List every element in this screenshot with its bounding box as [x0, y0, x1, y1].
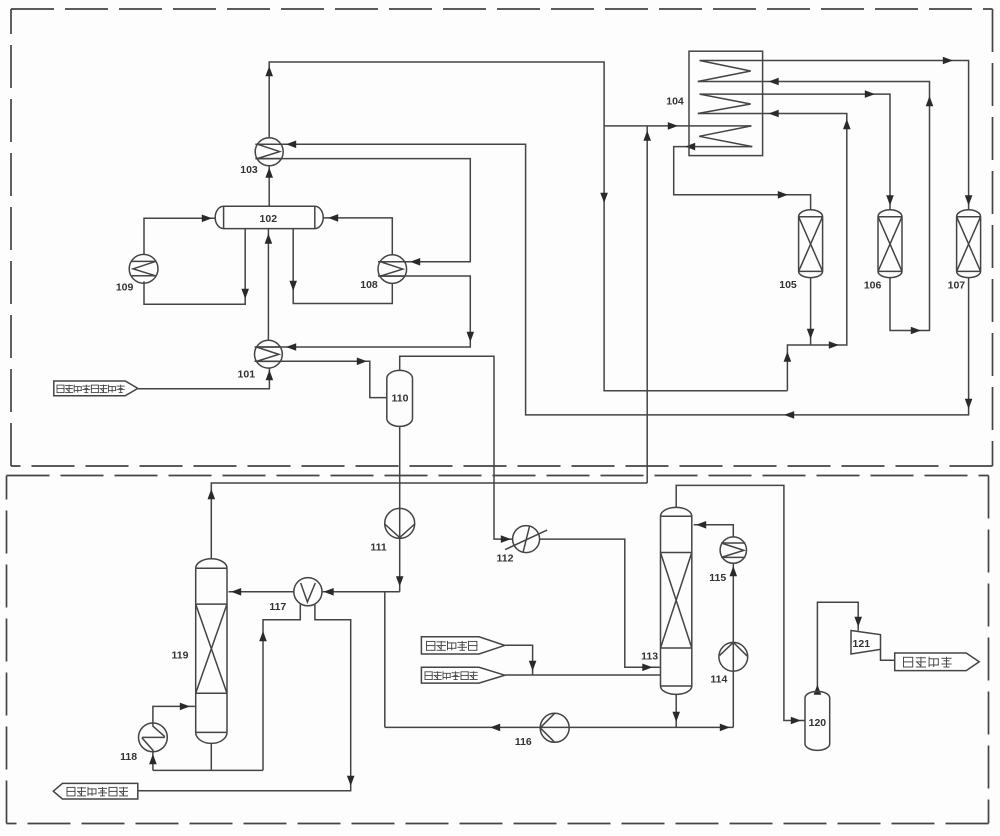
top battery-limit dashed border: [11, 9, 993, 466]
furnace 104 box: [689, 51, 763, 155]
furnace 104 coil 2: [698, 94, 751, 113]
wire drum 120 top to compressor 121: [814, 602, 862, 695]
wire coil1 outlet to reactor 107: [700, 57, 973, 210]
label 101: [238, 369, 256, 381]
label 111: [370, 541, 387, 553]
reactor 106: [878, 210, 902, 278]
wire 108 loop bottom: [289, 229, 392, 304]
label 109: [116, 281, 134, 293]
label 104: [666, 95, 684, 107]
svg-text:107: 107: [948, 280, 966, 292]
column 119: [196, 559, 227, 744]
column 113: [661, 507, 692, 694]
wire reactor 106 outlet to coil1: [698, 78, 934, 335]
furnace 104 coil 3: [699, 126, 752, 147]
drum 120: [805, 691, 830, 750]
tag: degasser drum vapor: [421, 637, 504, 654]
wire cooler 115 to column 113 top: [694, 521, 734, 537]
tag: caustic wash system: [895, 653, 980, 671]
pump 116: [540, 713, 569, 742]
svg-text:101: 101: [238, 369, 256, 381]
exchanger 108: [378, 255, 407, 284]
svg-text:116: 116: [515, 736, 532, 748]
svg-text:117: 117: [269, 601, 286, 613]
label 106: [864, 280, 882, 292]
label 112: [497, 553, 514, 565]
svg-text:109: 109: [116, 281, 134, 293]
exchanger 101: [255, 340, 283, 368]
label 119: [172, 649, 189, 661]
svg-text:115: 115: [709, 572, 726, 584]
wire riser through pump 114 to cooler 115: [730, 563, 738, 727]
wire 108 top to drum 102: [323, 214, 392, 255]
wire compressor 121 outlet to caustic tag: [881, 649, 895, 660]
reactor 105: [799, 210, 823, 278]
label 116: [515, 736, 532, 748]
exchanger 109: [129, 254, 158, 283]
wire 101 outlet to drum 110: [255, 358, 387, 398]
drum 110: [387, 370, 413, 426]
svg-text:110: 110: [392, 393, 409, 405]
wire reactor 107 outlet to exchanger 103: [255, 141, 972, 419]
svg-text:118: 118: [120, 751, 137, 763]
furnace 104 coil 1: [698, 61, 751, 82]
wire coil3 outlet to reactor 105: [674, 143, 811, 210]
pump 114: [719, 642, 748, 671]
label 120: [809, 717, 827, 729]
exchanger 117: [294, 578, 322, 606]
wire column 119 overhead recycle: [208, 483, 648, 559]
label 105: [779, 279, 797, 291]
label 102: [260, 213, 278, 225]
drum 102: [215, 206, 323, 228]
cooler 115: [720, 537, 746, 563]
wire column 113 bottom outlet: [672, 694, 680, 727]
tag: raw ethanol from OSBL: [54, 381, 138, 396]
svg-text:102: 102: [260, 213, 278, 225]
svg-text:113: 113: [641, 650, 658, 662]
wire coil2 outlet to reactor 106: [700, 90, 894, 210]
compressor 121: [851, 631, 881, 655]
wire 119 bottoms to reboiler 118 loop: [149, 743, 263, 770]
wire reboiler 118 return to column 119: [153, 703, 196, 723]
wire degasser tag branch: [505, 645, 537, 675]
label 107: [948, 280, 966, 292]
wire ethanol feed line: [138, 368, 273, 388]
svg-text:112: 112: [497, 553, 514, 565]
tag: wastewater to OSBL: [53, 783, 138, 799]
wire reactor 105 bottom outlet: [807, 277, 815, 345]
bottom battery-limit dashed border: [7, 476, 989, 824]
wire dryer offgas line to column 113: [505, 674, 660, 676]
reactor 107: [957, 210, 981, 278]
label 121: [853, 638, 871, 650]
tag: drying tower offgas: [421, 667, 504, 683]
svg-text:119: 119: [172, 649, 189, 661]
trim cooler 112: [505, 526, 547, 553]
svg-text:121: 121: [853, 638, 871, 650]
wire mix riser to coil2: [698, 110, 851, 391]
label 114: [710, 674, 727, 686]
wire branch down to pump 116 line: [384, 592, 386, 728]
label 115: [709, 572, 726, 584]
svg-text:108: 108: [360, 279, 378, 291]
wire 119 bottoms to exchanger 117 cold side: [138, 604, 355, 791]
svg-text:120: 120: [809, 717, 827, 729]
svg-text:105: 105: [779, 279, 797, 291]
wire 109 loop top to drum 102: [144, 215, 215, 256]
wire column 113 overhead to drum 120: [676, 485, 805, 724]
label 117: [269, 601, 286, 613]
svg-text:114: 114: [710, 674, 727, 686]
reboiler 118: [139, 723, 168, 752]
pump 111: [385, 508, 415, 538]
label 108: [360, 279, 378, 291]
wire 101 top to drum 102 bottom: [265, 229, 273, 341]
wire stripper feed line through pump 116: [385, 724, 734, 732]
wire 108 outlet to exchanger 101: [255, 276, 475, 351]
svg-text:106: 106: [864, 280, 882, 292]
label 103: [240, 164, 258, 176]
wire 102 top to 103 bottom: [265, 166, 273, 206]
label 110: [392, 393, 409, 405]
wire 119 recycle riser: [643, 126, 651, 483]
wire 112 outlet to column 113: [540, 539, 660, 671]
wire 109 loop bottom: [144, 229, 249, 305]
label 113: [641, 650, 658, 662]
label 118: [120, 751, 137, 763]
wire drum 110 bottom through pump 111 to 117: [229, 426, 404, 595]
svg-text:111: 111: [370, 541, 387, 553]
svg-text:104: 104: [666, 95, 684, 107]
wire 103 outlet to exchanger 108: [255, 159, 470, 266]
wire drum 110 top to exchanger 112: [400, 356, 513, 543]
wire furnace feed branch: [604, 122, 751, 130]
exchanger 103: [255, 138, 283, 166]
svg-text:103: 103: [240, 164, 258, 176]
wire 103 top loop to mix point: [265, 62, 787, 391]
